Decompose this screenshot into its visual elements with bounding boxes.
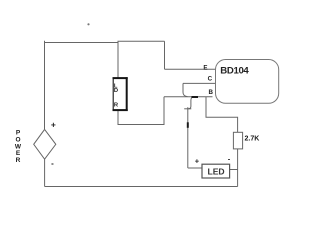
svg-text:R: R xyxy=(16,157,21,164)
svg-text:B: B xyxy=(208,89,213,96)
svg-text:+: + xyxy=(195,157,200,166)
svg-text:-: - xyxy=(51,159,54,168)
svg-text:BD104: BD104 xyxy=(220,65,249,76)
svg-text:2.7K: 2.7K xyxy=(245,135,260,142)
svg-text:D: D xyxy=(114,88,118,94)
svg-text:C: C xyxy=(208,75,213,82)
svg-text:E: E xyxy=(203,65,207,72)
svg-text:LED: LED xyxy=(208,167,225,177)
svg-text:+: + xyxy=(51,120,56,130)
